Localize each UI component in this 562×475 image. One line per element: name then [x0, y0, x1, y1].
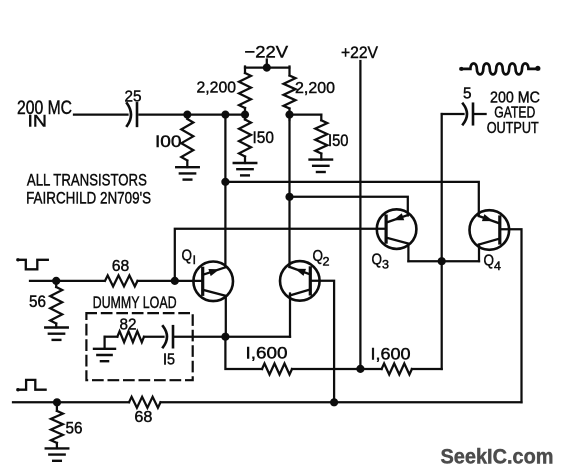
- ground: [94, 337, 115, 362]
- wire: [412, 368, 442, 370]
- wire: [289, 113, 322, 115]
- label 200 MC out: [490, 90, 540, 107]
- wire: [186, 161, 188, 168]
- label 200 MC: [17, 98, 72, 119]
- node 2200R junction: [285, 111, 293, 119]
- svg-text:Q: Q: [182, 248, 193, 265]
- wire Q4 base: [500, 229, 522, 402]
- svg-text:4: 4: [494, 259, 501, 273]
- wire bottom rail: [161, 401, 522, 403]
- svg-text:I5: I5: [163, 352, 175, 369]
- label 56 upper: [29, 293, 46, 311]
- resistor 68 lower: [129, 397, 161, 408]
- label OUTPUT: [487, 120, 539, 137]
- ground: [310, 160, 333, 172]
- wire -22V rail: [245, 66, 290, 68]
- wire Q1 collector feed: [224, 115, 226, 268]
- wire Q4 emitter down: [478, 245, 480, 262]
- wire pulse2: [13, 401, 129, 403]
- resistor 1,600 right: [382, 364, 412, 375]
- node Q1 feed tap: [221, 111, 229, 119]
- wire: [292, 368, 382, 370]
- ground: [46, 448, 69, 460]
- svg-text:82: 82: [120, 317, 137, 334]
- label IN: [28, 112, 48, 131]
- resistor 82: [117, 331, 144, 342]
- wire -22V stub: [266, 60, 268, 68]
- svg-text:I00: I00: [155, 132, 182, 151]
- label 150 left: [253, 128, 275, 147]
- svg-text:56: 56: [66, 420, 83, 438]
- svg-text:DUMMY LOAD: DUMMY LOAD: [93, 293, 177, 312]
- svg-text:2,200: 2,200: [295, 80, 335, 97]
- resistor 150 left: [239, 120, 251, 157]
- label 2,200 left: [197, 80, 237, 97]
- label 68 lower: [134, 409, 152, 426]
- svg-text:OUTPUT: OUTPUT: [487, 120, 539, 137]
- label 2,200 right: [295, 80, 335, 97]
- label -22V supply: [245, 43, 289, 62]
- wire dummy out: [175, 336, 290, 338]
- node Q4 line tap: [221, 178, 229, 186]
- label 1,600 left: [246, 345, 288, 363]
- wire Q1 emitter down: [225, 296, 227, 337]
- transistor Q3: [377, 209, 417, 249]
- svg-text:ALL TRANSISTORS: ALL TRANSISTORS: [27, 171, 147, 190]
- label Q2: [313, 248, 330, 269]
- label Q4: [484, 253, 502, 274]
- label Q3: [372, 252, 390, 272]
- label Q1: [182, 248, 197, 267]
- node Q1 base node: [171, 277, 179, 285]
- svg-text:25: 25: [125, 89, 142, 106]
- pulse input 1 symbol: [16, 258, 48, 269]
- pulse input 2 symbol: [16, 380, 45, 392]
- wire +22V feed: [359, 61, 361, 369]
- transistor Q4: [470, 210, 510, 250]
- wire: [320, 154, 322, 160]
- svg-text:3: 3: [382, 258, 389, 272]
- wire: [288, 67, 290, 76]
- transistor Q1: [193, 262, 233, 302]
- svg-text:I,600: I,600: [371, 346, 411, 364]
- label 25: [125, 89, 142, 106]
- svg-text:SeekIC.com: SeekIC.com: [441, 445, 554, 469]
- label 150 right: [328, 131, 349, 150]
- svg-text:FAIRCHILD 2N709'S: FAIRCHILD 2N709'S: [26, 189, 151, 208]
- svg-text:I50: I50: [253, 128, 275, 147]
- wire: [55, 324, 57, 328]
- capacitor 25 input: [127, 103, 137, 126]
- node Q2 base rail node: [330, 398, 338, 406]
- label 100: [155, 132, 182, 151]
- label +22V supply: [341, 43, 379, 62]
- node emitter node: [438, 257, 446, 265]
- wire: [138, 280, 203, 282]
- svg-text:2: 2: [323, 255, 330, 269]
- resistor 1,600 left: [262, 364, 292, 375]
- wire input: [74, 113, 128, 115]
- node 56T tap: [52, 277, 60, 285]
- node +22V rail node: [356, 365, 364, 373]
- resistor 100: [181, 119, 193, 161]
- svg-text:I,600: I,600: [246, 345, 288, 363]
- wire: [225, 337, 262, 369]
- label 1,600 right: [371, 346, 411, 364]
- svg-text:68: 68: [112, 258, 130, 275]
- node -22V junction: [263, 64, 271, 72]
- label ALL TRANSISTORS: [27, 171, 147, 190]
- svg-text:2,200: 2,200: [197, 80, 237, 97]
- capacitor 5 output: [463, 104, 473, 125]
- svg-text:+22V: +22V: [341, 43, 379, 62]
- label 82: [120, 317, 137, 334]
- node 56B tap: [53, 398, 61, 406]
- label 15: [163, 352, 175, 369]
- svg-text:Q: Q: [372, 252, 383, 269]
- label 56 lower: [66, 420, 83, 438]
- node Q3 line tap: [285, 193, 293, 201]
- dummy load dashed box: [86, 313, 192, 380]
- wire: [244, 67, 246, 74]
- wire: [144, 336, 164, 338]
- resistor 56 lower: [51, 411, 63, 443]
- ground: [176, 167, 199, 179]
- ground: [45, 328, 68, 340]
- wire: [288, 109, 290, 121]
- svg-text:Q: Q: [313, 248, 324, 265]
- wire: [56, 443, 58, 449]
- svg-text:56: 56: [29, 293, 46, 311]
- resistor 2,200 right: [284, 76, 296, 109]
- wire output stub: [475, 113, 486, 115]
- resistor 150 right: [315, 120, 327, 153]
- node dummy/Q1 node: [221, 333, 229, 341]
- svg-text:GATED: GATED: [494, 105, 535, 122]
- wire: [244, 108, 246, 120]
- resistor 2,200 left: [239, 73, 251, 108]
- node input/2200 junction: [241, 111, 249, 119]
- output waveform squiggle: [460, 63, 541, 74]
- transistor Q2: [280, 261, 320, 301]
- wire: [320, 115, 322, 121]
- label 68 upper: [112, 258, 130, 275]
- svg-text:5: 5: [463, 86, 472, 103]
- wire to Q3: [290, 197, 408, 216]
- resistor 56 upper: [50, 287, 62, 324]
- wire Q3 emitter down: [407, 244, 409, 262]
- svg-text:68: 68: [134, 409, 152, 426]
- wire: [105, 336, 118, 338]
- node 100R tap: [183, 111, 191, 119]
- wire pulse1: [30, 280, 104, 282]
- label DUMMY LOAD: [93, 293, 177, 312]
- wire Q1/Q3 base link: [175, 229, 386, 281]
- wire output riser: [441, 114, 443, 369]
- wire cap5 feed: [442, 113, 464, 115]
- resistor 68 upper: [105, 275, 138, 286]
- svg-text:Q: Q: [484, 253, 495, 270]
- svg-text:IN: IN: [28, 112, 48, 131]
- wire Q2 collector feed: [288, 115, 290, 267]
- ground: [234, 163, 257, 175]
- wire Q2 base: [310, 281, 334, 403]
- svg-text:I50: I50: [328, 131, 349, 150]
- wire: [244, 157, 246, 164]
- wire Q2 emitter down: [289, 294, 291, 337]
- wire: [55, 281, 57, 287]
- label 5: [463, 86, 472, 103]
- label FAIRCHILD 2N709S: [26, 189, 151, 208]
- wire: [56, 402, 58, 411]
- capacitor 15 dummy: [163, 326, 173, 347]
- label SeekIC.com watermark: [441, 445, 554, 469]
- wire: [140, 113, 246, 115]
- wire to Q4: [225, 182, 478, 216]
- wire emitter tie: [408, 260, 479, 262]
- label GATED: [494, 105, 535, 122]
- svg-text:I: I: [193, 253, 197, 267]
